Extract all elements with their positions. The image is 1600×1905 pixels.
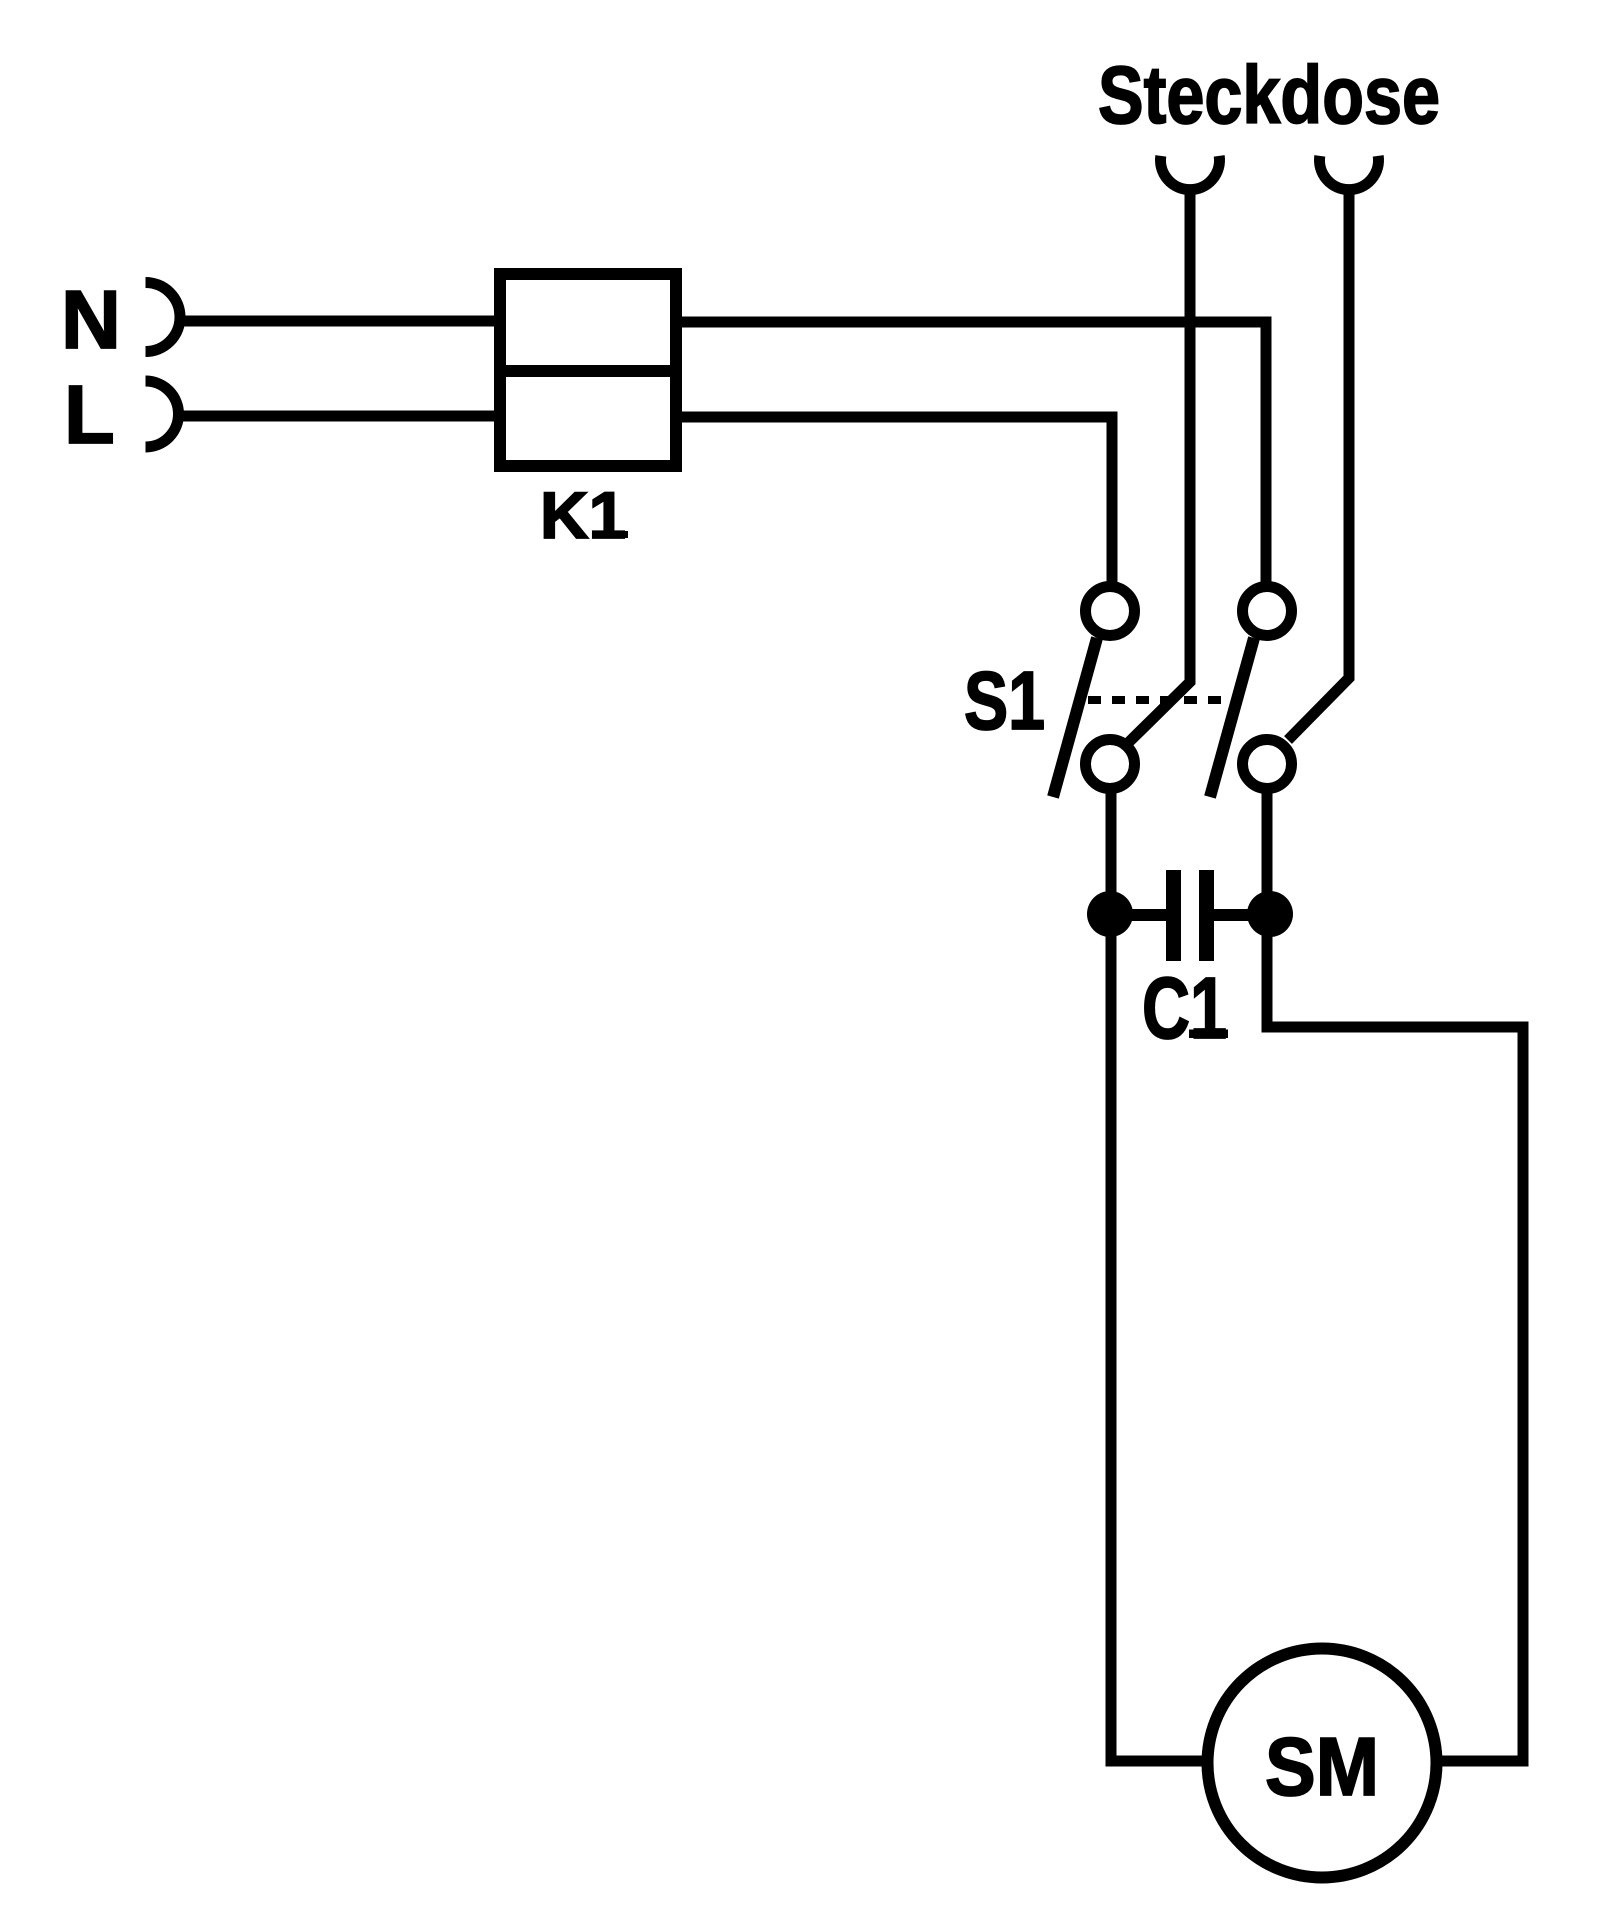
wire: left branch down to motor bbox=[1111, 914, 1202, 1761]
svg-text:L: L bbox=[64, 368, 115, 461]
socket contact right (hook) bbox=[1320, 156, 1379, 190]
capacitor C1 right plate bbox=[1199, 870, 1214, 961]
svg-text:C1: C1 bbox=[1142, 960, 1227, 1057]
wire: right branch over to motor right side bbox=[1267, 914, 1523, 1761]
label K1 digit foot bbox=[595, 531, 628, 538]
wire L from terminal to K1 bbox=[183, 411, 497, 422]
capacitor C1 right lead bbox=[1214, 909, 1270, 921]
junction node left bbox=[1087, 891, 1133, 937]
switch S1 left pole: upper contact circle bbox=[1086, 587, 1135, 636]
svg-text:K1: K1 bbox=[540, 478, 626, 552]
terminal N arc bbox=[146, 283, 181, 352]
svg-text:S1: S1 bbox=[964, 654, 1045, 747]
motor SM circle bbox=[1208, 1649, 1437, 1878]
switch S1 right pole: arm bbox=[1210, 638, 1254, 797]
switch S1 right pole: upper contact circle bbox=[1243, 587, 1292, 636]
socket contact left (hook) bbox=[1161, 156, 1220, 190]
capacitor C1 left lead bbox=[1110, 909, 1166, 921]
switch S1 left pole: arm bbox=[1053, 638, 1097, 797]
svg-text:N: N bbox=[61, 273, 121, 366]
wire L from K1 to corner and down bbox=[679, 417, 1112, 585]
relay K1 divider bbox=[494, 365, 682, 377]
capacitor C1 left plate bbox=[1166, 870, 1181, 961]
wire N from K1 to right corner bbox=[679, 322, 1266, 585]
wire N from terminal to K1 bbox=[183, 316, 497, 327]
svg-text:Steckdose: Steckdose bbox=[1098, 50, 1440, 141]
wire: left switch lower contact to junction bbox=[1106, 789, 1117, 914]
relay K1 box bbox=[500, 274, 676, 466]
label S1 digit foot bbox=[1013, 722, 1044, 730]
wire: right hook stem down with elbow to switch lower contact bbox=[1288, 192, 1349, 740]
switch S1 right pole: lower contact circle bbox=[1243, 740, 1292, 789]
switch S1 mechanical coupling (dashed) bbox=[1088, 696, 1228, 704]
svg-text:SM: SM bbox=[1265, 1720, 1379, 1813]
wire: left hook stem down with elbow to switch lower contact bbox=[1129, 192, 1190, 742]
junction node right bbox=[1247, 891, 1293, 937]
terminal L arc bbox=[146, 381, 179, 447]
switch S1 left pole: lower contact circle bbox=[1086, 740, 1135, 789]
label C1 digit foot bbox=[1189, 1030, 1228, 1039]
wire: right switch lower contact to junction bbox=[1262, 789, 1273, 914]
